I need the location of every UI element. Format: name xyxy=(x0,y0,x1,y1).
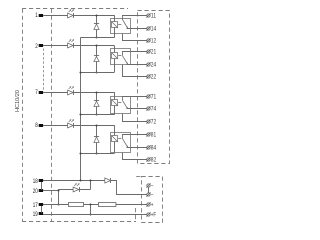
diode V3 (freewheel) xyxy=(94,101,99,106)
wire NC to terminal 72 xyxy=(123,114,147,122)
relay coil K3 xyxy=(112,100,118,106)
svg-text:14: 14 xyxy=(151,27,157,33)
wire input 8 to coil K4 xyxy=(43,125,114,127)
svg-text:HC10/20: HC10/20 xyxy=(15,90,21,112)
input terminal 20 xyxy=(39,189,43,192)
contact terminals dashed box xyxy=(138,11,170,164)
wire terminal 17 rail xyxy=(43,204,147,206)
node input 1 / diode xyxy=(96,15,98,17)
input terminal 2 xyxy=(39,44,43,47)
input terminal 8 xyxy=(39,124,43,127)
terminal 22 xyxy=(147,75,150,78)
svg-text:12: 12 xyxy=(151,39,157,45)
svg-text:82: 82 xyxy=(151,158,157,164)
coil-contact link K2 xyxy=(118,55,121,57)
svg-text:+: + xyxy=(151,203,154,209)
svg-text:19: 19 xyxy=(33,211,38,218)
terminal 72 xyxy=(147,120,150,123)
wire terminal 19 rail xyxy=(43,214,147,216)
terminal 11 xyxy=(147,14,150,17)
node R1 / link xyxy=(90,204,92,206)
module outline bottom dashed edge xyxy=(22,221,136,223)
wire coil K4 return xyxy=(81,153,115,155)
module outline left dashed edge xyxy=(22,9,24,222)
wire 18 rail to terminal minus xyxy=(117,181,147,195)
svg-text:81: 81 xyxy=(151,133,157,139)
LED channel 1 xyxy=(68,13,74,18)
wire COM to terminal 11 xyxy=(122,15,147,17)
node diode / return xyxy=(96,153,98,155)
node 19 rail / link xyxy=(90,214,92,216)
contact arm K3 xyxy=(123,101,128,109)
input terminal 18 xyxy=(39,179,43,182)
svg-text:24: 24 xyxy=(151,63,157,69)
svg-text:74: 74 xyxy=(151,107,157,113)
wire NO to terminal 24 xyxy=(127,64,147,66)
diode V4 (freewheel) xyxy=(94,137,99,143)
terminal 71 xyxy=(147,95,150,98)
svg-text:2: 2 xyxy=(35,43,38,50)
wire coil K4 feed xyxy=(114,125,116,153)
wire diode branch K1 xyxy=(96,15,98,37)
node 20 / status branch xyxy=(58,190,60,192)
terminal 14 xyxy=(147,27,150,30)
svg-text:+F: +F xyxy=(151,213,157,219)
coil-contact link K1 xyxy=(118,24,121,26)
diode V2 (freewheel) xyxy=(94,56,99,61)
svg-text:71: 71 xyxy=(151,95,157,101)
input terminal 17 xyxy=(39,203,43,206)
svg-text:7: 7 xyxy=(35,89,38,96)
contact pole stub K2 xyxy=(122,52,124,56)
relay K1 outline xyxy=(111,19,131,34)
diode V1 (freewheel) xyxy=(94,24,99,30)
node return bus K4 xyxy=(80,153,82,155)
wire diode branch K2 xyxy=(96,46,98,73)
LED channel 3 xyxy=(68,90,74,95)
dashed link terminal 2 to terminal 7 xyxy=(43,49,45,91)
input terminal 1 xyxy=(39,14,43,17)
wire NO to terminal 84 xyxy=(127,147,147,149)
wire diode branch K3 xyxy=(96,92,98,114)
wire input 2 to coil K2 xyxy=(43,45,114,47)
terminal 81 xyxy=(147,133,150,136)
contact NO tip K1 xyxy=(127,27,129,29)
contact NO tip K4 xyxy=(127,146,129,148)
relay coil K1 xyxy=(112,22,118,28)
wire diode branch K4 xyxy=(96,125,98,153)
contact pole stub K1 xyxy=(122,15,124,19)
wire NO to terminal 74 xyxy=(127,108,147,110)
wire NC to terminal 12 xyxy=(123,34,147,41)
wire coil K1 return xyxy=(81,37,115,39)
wire COM to terminal 71 xyxy=(122,96,147,98)
contact NO tip K2 xyxy=(127,63,129,65)
relay K3 outline xyxy=(111,97,131,114)
node diode / return xyxy=(96,37,98,39)
diode V5 (polarity) xyxy=(105,178,111,183)
contact pole stub K4 xyxy=(122,134,124,138)
terminal minus (a) xyxy=(147,184,150,187)
node diode / return xyxy=(96,114,98,116)
wire terminal 18 rail xyxy=(43,180,117,182)
contact pole stub K3 xyxy=(122,96,124,100)
node diode / return xyxy=(96,72,98,74)
coil-contact link K3 xyxy=(118,102,121,104)
relay coil K2 xyxy=(112,53,118,59)
node input 2 / diode xyxy=(96,45,98,47)
input terminal 19 xyxy=(39,212,43,215)
link terminal 18-20 xyxy=(41,182,43,190)
wire input 7 to coil K3 xyxy=(43,92,114,94)
node return bus K2 xyxy=(80,72,82,74)
svg-text:1: 1 xyxy=(35,12,38,19)
wire NC to terminal 82 xyxy=(123,153,147,160)
link 17-19 rails xyxy=(90,205,92,215)
link terminal 17-19 xyxy=(41,206,43,213)
link terminal minus to minus xyxy=(148,187,150,193)
wire status branch to 18 rail xyxy=(90,181,92,190)
terminal 84 xyxy=(147,146,150,149)
svg-text:11: 11 xyxy=(151,14,157,20)
terminal plus xyxy=(147,203,150,206)
terminal 21 xyxy=(147,50,150,53)
wire status LED branch xyxy=(58,189,90,191)
node input 7 / diode xyxy=(96,92,98,94)
wire coil K3 return xyxy=(81,114,115,116)
terminal 12 xyxy=(147,39,150,42)
contact arm K1 xyxy=(123,20,128,28)
wire NO to terminal 14 xyxy=(127,28,147,30)
terminal +F xyxy=(147,213,150,216)
terminal 82 xyxy=(147,158,150,161)
wire coil K1 feed xyxy=(114,15,116,37)
svg-text:18: 18 xyxy=(33,178,38,185)
relay K4 outline xyxy=(111,133,131,153)
wire coil K3 feed xyxy=(114,92,116,114)
input terminal 7 xyxy=(39,91,43,94)
LED channel 2 xyxy=(68,43,74,48)
wire coil K2 return xyxy=(81,72,115,74)
terminal 24 xyxy=(147,63,150,66)
wire COM to terminal 81 xyxy=(122,134,147,136)
LED supply status xyxy=(73,187,79,192)
terminal 74 xyxy=(147,107,150,110)
resistor R2 xyxy=(99,203,116,207)
node status branch / 17 rail xyxy=(58,204,60,206)
svg-text:8: 8 xyxy=(35,122,38,129)
wire status branch vertical xyxy=(58,189,60,204)
contact NO tip K3 xyxy=(127,107,129,109)
terminal minus (b) xyxy=(147,193,150,196)
node status / 18 rail xyxy=(90,180,92,182)
coil-contact link K4 xyxy=(118,138,121,140)
contact arm K2 xyxy=(123,56,128,64)
svg-text:20: 20 xyxy=(33,188,38,195)
wire terminal 20 xyxy=(43,190,58,192)
power terminals dashed box xyxy=(142,177,163,223)
wire input 1 to coil K1 xyxy=(43,15,114,17)
wire COM to terminal 21 xyxy=(122,51,147,53)
wire coil K2 feed xyxy=(114,46,116,73)
terminal zone dashed separator xyxy=(51,9,53,222)
svg-text:21: 21 xyxy=(151,50,157,56)
LED channel 4 xyxy=(68,123,74,128)
contact arm K4 xyxy=(123,139,128,147)
node return bus K3 xyxy=(80,114,82,116)
svg-text:22: 22 xyxy=(151,75,157,81)
svg-text:−: − xyxy=(151,184,154,190)
svg-text:72: 72 xyxy=(151,120,157,126)
relay coil K4 xyxy=(112,136,118,142)
relay K2 outline xyxy=(111,49,131,65)
svg-text:−: − xyxy=(151,193,154,199)
module outline top dashed edge xyxy=(22,8,128,10)
wire NC to terminal 22 xyxy=(123,65,147,77)
node bus / 18 rail xyxy=(80,180,82,182)
resistor R1 xyxy=(69,203,84,207)
node input 8 / diode xyxy=(96,125,98,127)
power box top edge extension xyxy=(136,176,142,178)
svg-text:84: 84 xyxy=(151,146,157,152)
module outline right dashed edge stub xyxy=(135,208,137,222)
common return bus wire xyxy=(80,38,82,181)
svg-text:17: 17 xyxy=(33,202,38,209)
